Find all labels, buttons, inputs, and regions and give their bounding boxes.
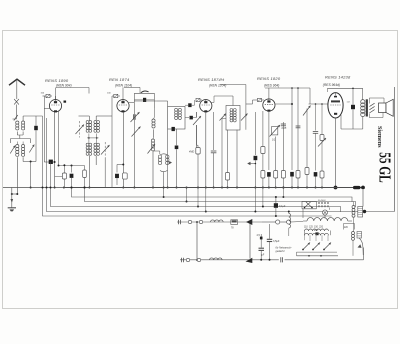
La2 tuning arrow right xyxy=(29,145,34,153)
V4 cathode xyxy=(268,111,270,170)
IF T3 center tail xyxy=(176,129,178,145)
node 30 down xyxy=(30,162,32,188)
antenna coil La1b xyxy=(22,121,25,124)
secondary winding 2 xyxy=(305,233,329,235)
bias link xyxy=(12,193,17,195)
supply line 4b xyxy=(43,115,47,117)
coil T2a xyxy=(86,121,89,124)
switch loop xyxy=(134,92,154,94)
osc coil L1 xyxy=(152,119,155,122)
output transformer secondary xyxy=(369,103,374,106)
tapped resistor xyxy=(358,207,363,218)
leader V3 xyxy=(220,84,246,86)
wire coil to gang xyxy=(23,115,42,117)
psu coil right xyxy=(352,206,355,209)
ground symbol xyxy=(8,207,16,209)
V4 anode res col xyxy=(262,111,264,147)
selector pins xyxy=(318,202,319,203)
res drop L3 xyxy=(262,188,264,207)
psu right link xyxy=(365,211,395,213)
antenna coil La2b xyxy=(22,145,25,148)
supply line 4 xyxy=(47,118,365,212)
tube V2 xyxy=(117,100,129,112)
V2 cathode wire xyxy=(122,112,124,188)
osc coil L2 xyxy=(151,139,154,142)
diode arrow xyxy=(247,162,250,165)
svg-text:110 125 150 220: 110 125 150 220 xyxy=(304,227,324,229)
supply line 1 xyxy=(72,188,353,203)
svg-text:RENS 1820: RENS 1820 xyxy=(257,76,281,81)
ground wire xyxy=(11,188,13,204)
row2 choke xyxy=(210,258,223,260)
IF T4 coils xyxy=(230,109,233,112)
psu bottom rail 1 xyxy=(297,251,338,253)
antenna coil La2a xyxy=(16,145,19,148)
antenna symbol xyxy=(9,79,25,85)
T3 drop to line2 xyxy=(186,188,188,202)
psu switch 1 xyxy=(305,202,311,208)
V3 drop to line4 xyxy=(205,188,207,212)
IF T4 res R6 xyxy=(227,130,229,173)
svg-text:(RES 964d): (RES 964d) xyxy=(323,83,340,87)
osc trimmer C6 xyxy=(132,127,141,137)
page border xyxy=(3,31,398,309)
grid resistor R8 xyxy=(321,104,323,135)
tube V4 xyxy=(263,99,275,111)
row sockets xyxy=(276,220,280,224)
ground arrow xyxy=(11,199,14,203)
V3 cap C8 xyxy=(213,112,215,150)
cap 4.5 col xyxy=(260,234,262,248)
wire coil bottoms xyxy=(16,157,18,194)
svg-text:RENS 1423d: RENS 1423d xyxy=(325,75,351,80)
V5 cathode xyxy=(335,118,337,188)
V1 cathode wire xyxy=(54,112,56,188)
osc trimmer C5 xyxy=(131,112,140,122)
voltage selector xyxy=(344,224,355,230)
psu bottom switches xyxy=(303,243,310,250)
T4 avc wire xyxy=(222,118,226,120)
leader V1 xyxy=(56,87,89,89)
La2 tuning arrow left xyxy=(10,146,15,154)
psu cap 0.1 xyxy=(274,203,278,208)
supply line 3 xyxy=(51,162,341,212)
grid wire V3 xyxy=(197,99,203,101)
grid wire V2 xyxy=(111,116,113,188)
svg-text:0,1µF: 0,1µF xyxy=(279,205,286,208)
col 298 xyxy=(297,88,299,171)
lower rect sides xyxy=(196,222,198,260)
svg-text:RENS 1890: RENS 1890 xyxy=(45,78,69,83)
svg-text:(REN 1204): (REN 1204) xyxy=(209,84,226,88)
V4 pot cluster xyxy=(272,127,278,135)
coil T2b xyxy=(86,143,89,146)
heater row top xyxy=(177,221,262,223)
psu verticals xyxy=(302,209,304,218)
output transformer core xyxy=(366,99,368,116)
resistor R1 xyxy=(63,165,65,173)
bus blob end xyxy=(353,186,361,189)
IF T4 bottom tail xyxy=(236,130,238,188)
T2 wires xyxy=(88,116,90,121)
V2 bias parts xyxy=(117,164,123,166)
V3 resistor R5 xyxy=(196,148,200,155)
coupling cap C10 xyxy=(315,104,317,131)
field coil xyxy=(352,232,355,235)
AVC pot xyxy=(303,106,311,116)
supply line 2 xyxy=(85,188,356,208)
svg-text:4MΩ: 4MΩ xyxy=(189,151,194,154)
elec cap col xyxy=(269,224,271,239)
resistor R2 xyxy=(84,166,86,171)
V1 cluster top wire xyxy=(59,165,85,167)
heater row bottom xyxy=(180,259,279,261)
grid cap V1 xyxy=(43,95,53,97)
transformer wires xyxy=(362,116,364,129)
col 283 xyxy=(282,122,284,171)
row choke xyxy=(211,220,224,222)
tube V1 xyxy=(49,100,61,112)
svg-text:55 GL: 55 GL xyxy=(375,152,394,183)
mains transformer primary xyxy=(307,218,348,221)
La2 top wires xyxy=(16,142,18,145)
psu coil left xyxy=(288,212,290,214)
diode drop L4 xyxy=(254,188,256,212)
padder coil xyxy=(158,155,161,158)
pot column xyxy=(274,122,276,127)
svg-text:(REN 904): (REN 904) xyxy=(56,84,72,88)
IF T3 blob right xyxy=(185,117,189,119)
osc arrow xyxy=(148,144,156,154)
IF T4 top wire xyxy=(210,102,214,104)
tube V3 xyxy=(200,100,212,112)
col 292 xyxy=(291,88,293,170)
leader V2 xyxy=(124,86,140,88)
V1 screen wire xyxy=(58,111,60,165)
IF T3 frame xyxy=(168,106,185,129)
IF T3 anode wire xyxy=(167,101,169,106)
svg-text:(RES 964): (RES 964) xyxy=(264,84,279,88)
row2 cap xyxy=(181,258,183,262)
psu lamp xyxy=(322,210,327,215)
V3 cathode xyxy=(205,112,207,188)
svg-text:0,05: 0,05 xyxy=(282,127,287,130)
output transformer primary xyxy=(361,100,365,104)
svg-text:RENS 1874½: RENS 1874½ xyxy=(198,77,225,82)
psu bottom rail 2 xyxy=(297,255,339,257)
gang blob xyxy=(35,116,37,126)
T2 mid link xyxy=(87,137,99,139)
IF T3 left rail down xyxy=(167,129,169,188)
main bus xyxy=(64,187,362,189)
V3 drop to line3 xyxy=(197,188,199,207)
supply line 5 xyxy=(43,116,332,216)
T4 trimmer right xyxy=(241,114,248,121)
secondary winding 1 xyxy=(305,229,329,231)
trimmer C4 xyxy=(101,145,110,155)
svg-text:3,5µF: 3,5µF xyxy=(273,240,280,243)
diode column xyxy=(254,112,256,155)
AVC line xyxy=(221,119,223,188)
antenna coil La1a xyxy=(16,121,19,124)
T4 trimmer left xyxy=(220,114,227,121)
psu switch box xyxy=(302,201,316,209)
capacitor C2 xyxy=(71,166,73,173)
IF T3 blob bottom xyxy=(172,127,175,131)
col 283 below xyxy=(282,188,284,198)
svg-text:Siemens: Siemens xyxy=(376,126,383,148)
grid V4 wire xyxy=(252,100,254,104)
mid bar xyxy=(11,138,31,140)
svg-text:REN 1874: REN 1874 xyxy=(109,77,130,82)
IF T3 blob topright xyxy=(185,104,188,106)
main bus thin xyxy=(3,187,64,189)
leader V5 xyxy=(328,87,363,89)
right rail xyxy=(394,87,396,212)
junction dots V1 xyxy=(54,187,56,189)
tube V5 xyxy=(328,93,343,118)
wave switch xyxy=(14,115,18,121)
speaker xyxy=(379,103,387,113)
osc drop to line1 xyxy=(163,188,165,198)
svg-text:gedacht: gedacht xyxy=(276,250,285,253)
V3 pot arrow xyxy=(193,116,201,125)
grid line V5 xyxy=(309,103,328,105)
row cap xyxy=(178,220,180,224)
svg-text:90-240V: 90-240V xyxy=(318,200,326,202)
IF T3 coils xyxy=(175,108,178,111)
IF T4 right rail xyxy=(245,104,247,130)
antenna trimmer xyxy=(14,99,19,105)
trimmer C3 xyxy=(76,125,85,135)
V4 anode wire xyxy=(275,103,292,105)
La1 wires xyxy=(16,119,18,121)
IF T4 frame xyxy=(226,106,240,131)
svg-text:(REN 1104): (REN 1104) xyxy=(115,84,132,88)
leader V4 xyxy=(265,87,310,89)
V1 blob cap xyxy=(44,161,54,163)
